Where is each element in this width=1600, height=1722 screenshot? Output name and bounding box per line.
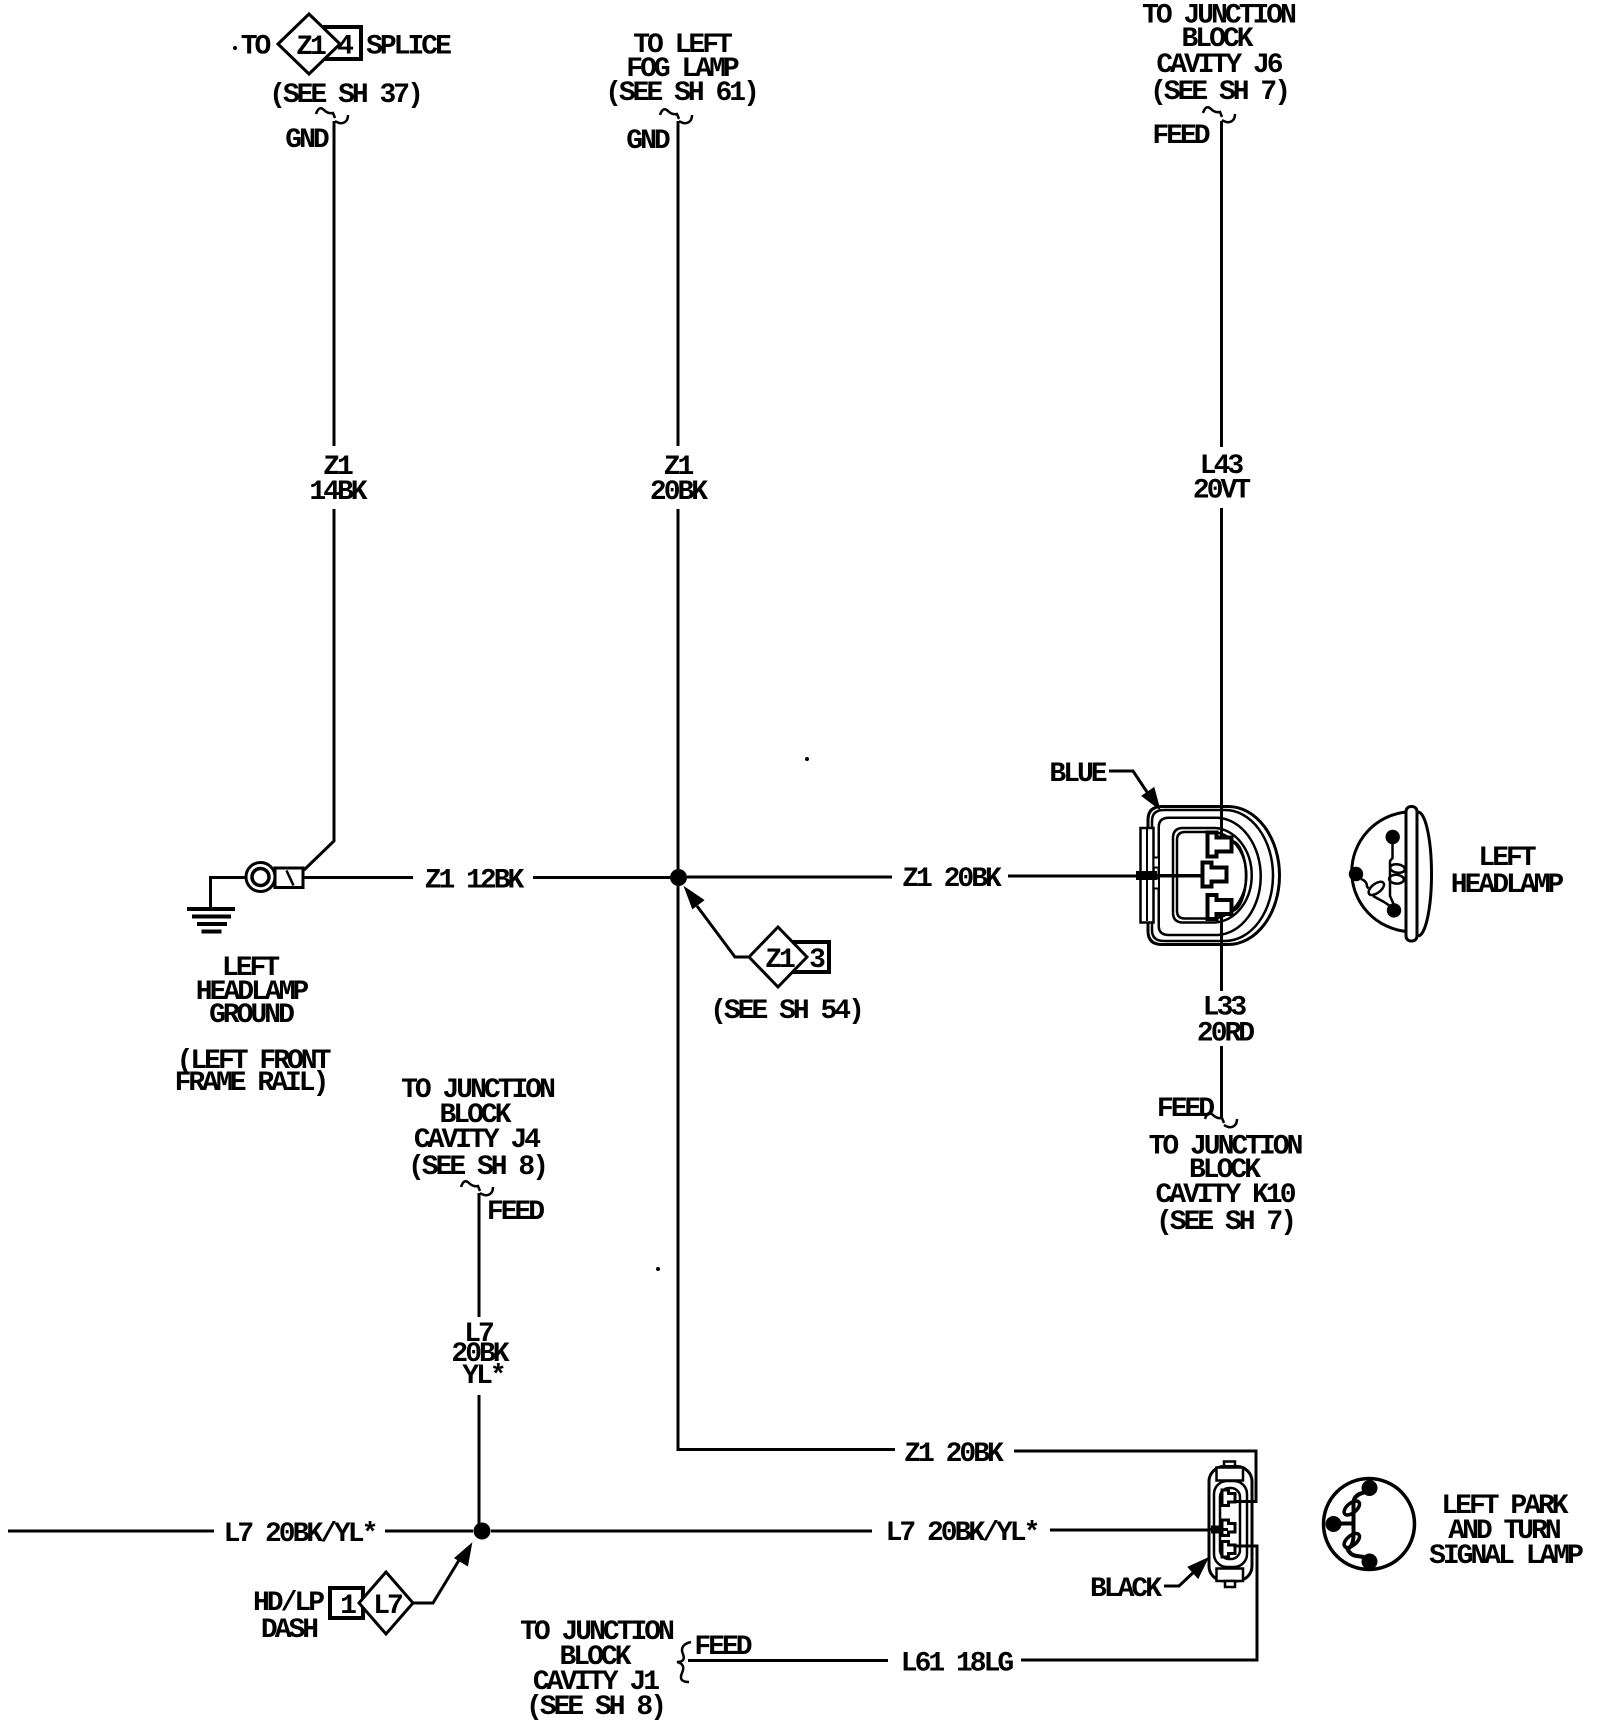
bottom nub	[1225, 1581, 1235, 1587]
svg-text:Z1 20BK: Z1 20BK	[902, 864, 1002, 895]
svg-text:GND: GND	[285, 125, 329, 156]
wire Z1 20BK horizontal (junction to headlamp connector)	[687, 876, 1206, 877]
wire stubs into terminals	[1235, 1500, 1256, 1503]
splice diamond Z1	[278, 14, 340, 74]
inner shroud	[1214, 1481, 1247, 1567]
wire break squiggle top-left	[316, 108, 348, 123]
wire label Z1 14BK	[309, 452, 367, 508]
svg-text:(SEE SH 7): (SEE SH 7)	[1156, 1207, 1294, 1238]
svg-text:(SEE SH 61): (SEE SH 61)	[605, 78, 757, 109]
svg-text:SPLICE: SPLICE	[366, 32, 451, 63]
node FEED label (J1 wire) with brace	[677, 1632, 752, 1682]
svg-text:Z1: Z1	[296, 32, 326, 63]
svg-text:L7 20BK/YL*: L7 20BK/YL*	[886, 1518, 1038, 1549]
cavity D arc	[1231, 841, 1246, 911]
svg-text:L61 18LG: L61 18LG	[901, 1649, 1014, 1680]
wire L61 18LG	[688, 1546, 1257, 1661]
junction node dot (Z1 splice point)	[670, 869, 687, 886]
svg-text:GND: GND	[626, 126, 670, 157]
inner shroud	[1173, 828, 1252, 923]
terminal pin 1	[1208, 833, 1232, 857]
svg-text:FEED: FEED	[487, 1197, 544, 1228]
label LEFT HEADLAMP	[1451, 843, 1564, 901]
bottom tab	[1217, 1569, 1244, 1582]
svg-text:FEED: FEED	[1157, 1094, 1214, 1125]
svg-text:L7: L7	[373, 1591, 402, 1622]
wire L7 20BK YL* vertical	[478, 1193, 481, 1531]
wire Z1 14BK vertical	[304, 121, 334, 870]
park/turn connector C2 (black)	[1209, 1462, 1257, 1588]
svg-text:(SEE SH 37): (SEE SH 37)	[269, 80, 421, 111]
svg-text:YL*: YL*	[462, 1361, 504, 1392]
node: TO JUNCTION BLOCK CAVITY J6 callout	[1142, 1, 1295, 109]
splice box 4	[325, 27, 361, 59]
svg-text:4: 4	[337, 32, 353, 63]
wire Z1 20BK lower run (junction down and right to park lamp)	[678, 1450, 1256, 1502]
svg-text:DASH: DASH	[261, 1615, 317, 1646]
wire entry chunk	[1136, 871, 1157, 880]
wire L33 20RD below headlamp connector	[1220, 911, 1223, 1119]
svg-text:HEADLAMP: HEADLAMP	[1451, 870, 1564, 901]
svg-text:1: 1	[340, 1591, 356, 1622]
headlamp bulb (left headlamp)	[1349, 807, 1432, 942]
svg-text:Z1 12BK: Z1 12BK	[425, 866, 525, 897]
connector callout HD/LP DASH 1-L7	[253, 1546, 471, 1647]
svg-text:FRAME RAIL): FRAME RAIL)	[175, 1068, 327, 1099]
filament wires	[1348, 1493, 1365, 1558]
svg-text:FEED: FEED	[1152, 121, 1209, 152]
svg-text:BLACK: BLACK	[1090, 1574, 1162, 1605]
node: TO JUNCTION BLOCK CAVITY K10 callout	[1149, 1132, 1302, 1239]
splice callout Z1-3 (SEE SH 54)	[686, 889, 862, 1027]
wire label L7 20BK YL*	[451, 1319, 509, 1392]
label BLACK with arrow to park/turn connector	[1090, 1560, 1207, 1606]
stray scan dot	[656, 1267, 660, 1271]
wire Z1 12BK horizontal (ground to junction)	[303, 876, 670, 879]
node: TO LEFT FOG LAMP callout	[605, 30, 757, 109]
ring terminal (left headlamp ground eyelet)	[246, 863, 303, 892]
label BLUE with arrow to headlamp connector	[1049, 759, 1158, 808]
svg-text:20VT: 20VT	[1193, 476, 1250, 507]
svg-text:20RD: 20RD	[1197, 1019, 1254, 1050]
top nub	[1224, 1462, 1235, 1470]
svg-text:14BK: 14BK	[309, 477, 367, 508]
svg-text:TO: TO	[241, 32, 271, 63]
headlamp connector C1 (blue) shell	[1136, 807, 1280, 945]
filament pins	[1386, 830, 1400, 844]
svg-text:SIGNAL LAMP: SIGNAL LAMP	[1429, 1541, 1583, 1572]
svg-text:L7 20BK/YL*: L7 20BK/YL*	[224, 1519, 376, 1550]
terminal pin 3	[1208, 895, 1232, 919]
svg-text:3: 3	[809, 945, 825, 976]
terminal pin 2	[1203, 863, 1227, 887]
svg-text:(SEE SH 7): (SEE SH 7)	[1150, 77, 1288, 108]
park/turn bulb (left park and turn signal lamp)	[1324, 1479, 1415, 1570]
svg-text:GROUND: GROUND	[209, 1000, 294, 1031]
wire L7 20BK/YL* main horizontal	[8, 1530, 1230, 1531]
dome	[1352, 812, 1407, 932]
svg-text:Z1 20BK: Z1 20BK	[904, 1439, 1004, 1470]
label LEFT PARK AND TURN SIGNAL LAMP	[1429, 1491, 1583, 1572]
top tab	[1217, 1468, 1244, 1481]
wire L43 20VT vertical (feed to headlamp connector)	[1220, 121, 1223, 841]
node: TO JUNCTION BLOCK CAVITY J4 callout	[401, 1075, 554, 1183]
terminal pins	[1222, 1490, 1235, 1506]
left mounting tab	[1141, 828, 1154, 923]
splice symbol Z1-4 callout	[233, 14, 451, 111]
wire from ring terminal to ground	[209, 876, 246, 907]
outer capsule	[1209, 1467, 1252, 1582]
svg-text:20BK: 20BK	[650, 477, 708, 508]
svg-text:BLUE: BLUE	[1049, 759, 1106, 790]
svg-text:(SEE SH 8): (SEE SH 8)	[408, 1152, 546, 1183]
lens bulge	[1418, 812, 1432, 936]
node: TO JUNCTION BLOCK CAVITY J1 callout	[520, 1617, 673, 1722]
wire label L33 20RD	[1197, 993, 1254, 1050]
wire stubs through shell	[1220, 838, 1223, 841]
arrowhead to junction	[686, 889, 703, 907]
ground symbol (left front frame rail)	[187, 909, 235, 932]
lens rim	[1406, 807, 1417, 942]
svg-text:Z1: Z1	[765, 945, 795, 976]
wire label L43 20VT	[1193, 451, 1250, 507]
svg-text:FEED: FEED	[694, 1632, 751, 1663]
wire Z1 20BK middle vertical	[677, 121, 680, 1451]
svg-text:(SEE SH 8): (SEE SH 8)	[526, 1692, 664, 1722]
stray scan dot	[805, 757, 809, 761]
svg-text:(SEE SH 54): (SEE SH 54)	[710, 996, 862, 1027]
label LEFT HEADLAMP GROUND	[175, 953, 331, 1099]
junction node dot (L7 branch)	[474, 1523, 491, 1540]
wire break squiggle J4	[461, 1181, 493, 1195]
wire break squiggle J6	[1203, 107, 1235, 122]
wire label Z1 20BK (middle vertical)	[650, 452, 708, 508]
wire break squiggle K10	[1205, 1113, 1237, 1127]
wire break squiggle fog lamp	[660, 109, 692, 123]
filament wires	[1390, 843, 1394, 905]
